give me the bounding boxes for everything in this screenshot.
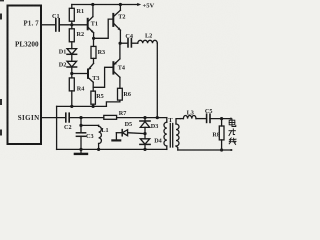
wire L2 down to transformer (156, 43, 158, 117)
wire L3 to C5 (196, 118, 206, 120)
inductor L1 (98, 125, 100, 126)
ground symbol for D5 (115, 133, 117, 141)
transformer T secondary winding (176, 124, 179, 146)
wire SIGIN to C2 (41, 117, 65, 119)
transformer T core (169, 124, 171, 148)
node: D3/D4/D5 mid (143, 132, 146, 135)
wire to C3/L1 lower branch (80, 118, 82, 126)
wire C2 to R7 (69, 117, 104, 119)
node A junction dot (70, 23, 73, 26)
transistor T3 (PNP) (88, 63, 93, 69)
transistor T4 (PNP) (112, 62, 114, 73)
node: T2 collector to rail (119, 3, 122, 6)
wire C5 to power line terminal (210, 118, 231, 120)
resistor R1 (71, 5, 73, 9)
inductor L2 (138, 40, 158, 43)
resistor R4 (69, 78, 74, 91)
transistor T2 (112, 14, 114, 26)
diode D5 (pointing left) (128, 132, 145, 135)
inductor L3 (180, 118, 183, 120)
capacitor C5 (207, 114, 210, 122)
+5V rail (72, 4, 138, 6)
node: T2/T4 output to C4 (119, 42, 122, 45)
wire C4 (120, 42, 127, 44)
diode D1 (67, 49, 77, 55)
resistor R2 (71, 25, 73, 29)
transformer T primary winding (166, 118, 168, 123)
diode D3 (pointing up) (144, 118, 146, 121)
resistor R6 (118, 88, 123, 100)
ground symbol under C3 (80, 149, 82, 153)
wire T3 collector to T4 base (93, 67, 113, 87)
wire C4 to L2 (131, 42, 137, 44)
scan noise marks on left edge (0, 0, 4, 136)
terminal top right (230, 118, 232, 120)
wire P1.7 to C1 (41, 24, 55, 26)
node: D2 / R4 / T3 base (70, 72, 73, 75)
wire R7 to transformer primary (117, 117, 167, 119)
resistor R8 (221, 119, 223, 126)
capacitor C2 (66, 113, 69, 122)
ground bus (mid) (57, 105, 107, 107)
capacitor C1 (56, 19, 59, 31)
node: C3/L1 branch tap (79, 116, 82, 119)
node: T1 collector to rail (91, 3, 94, 6)
wire T2 base (94, 19, 114, 38)
wire C1 to node A (59, 24, 87, 26)
node: D3 top (143, 116, 146, 119)
bottom ground rail (left) (57, 148, 167, 150)
resistor R3 (93, 38, 95, 46)
label power line (电力线) (229, 119, 236, 144)
terminal bottom right (230, 149, 232, 151)
node: R8 top (220, 117, 223, 120)
+5V arrowhead (137, 3, 141, 6)
capacitor C3 (80, 125, 82, 132)
diode D2 (67, 61, 77, 67)
ground bus drop to bottom rail (56, 106, 58, 149)
transistor T1 (87, 19, 89, 30)
diode D4 (pointing down) (140, 139, 149, 144)
resistor R5 (91, 91, 96, 104)
bottom rail (right) (178, 149, 232, 151)
capacitor C4 (128, 39, 131, 47)
IC U1 PL3200 box (8, 6, 42, 145)
node: L2 line meets wire (156, 116, 159, 119)
resistor R7 (horizontal) (104, 115, 117, 119)
node: T1 emitter / R3 / T2 base wire (92, 37, 95, 40)
